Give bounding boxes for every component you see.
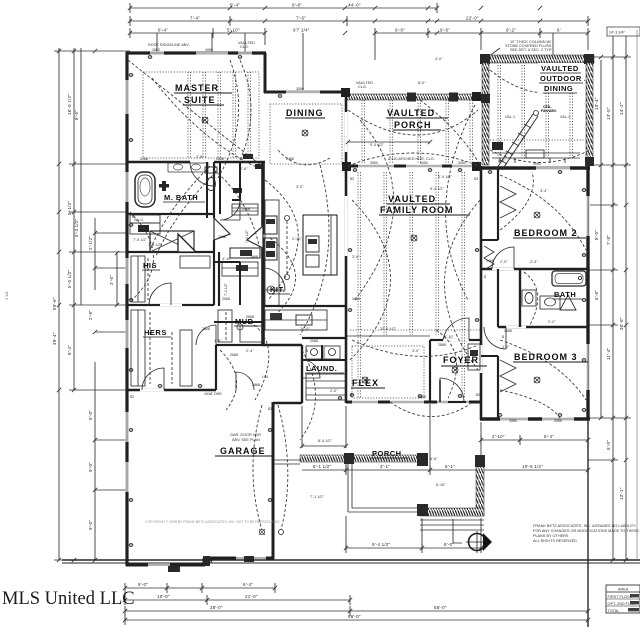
svg-text:FLEX: FLEX xyxy=(352,378,379,388)
svg-text:9'-4 1/2": 9'-4 1/2" xyxy=(370,143,385,147)
svg-text:9'-0": 9'-0" xyxy=(138,582,148,587)
svg-text:VAULTED: VAULTED xyxy=(387,108,435,118)
window: bedroom wing top xyxy=(536,166,570,169)
wall: mud/garage step xyxy=(263,345,302,403)
right dimension labels (rotated) xyxy=(594,97,624,500)
svg-text:3050: 3050 xyxy=(370,161,378,165)
svg-text:11'-4": 11'-4" xyxy=(606,347,611,360)
garage note xyxy=(230,433,261,442)
svg-text:M. BATH: M. BATH xyxy=(164,193,198,202)
wall stub laundry/flex xyxy=(322,345,346,402)
svg-text:3'-0": 3'-0" xyxy=(296,185,304,189)
hall wall stubs center xyxy=(207,162,263,322)
svg-text:12'-1": 12'-1" xyxy=(619,487,624,500)
svg-text:3'-1": 3'-1" xyxy=(380,464,390,469)
right sheet edge line xyxy=(636,30,638,560)
opening: bath door xyxy=(506,326,526,328)
svg-text:9'-0": 9'-0" xyxy=(88,410,93,420)
svg-text:2668: 2668 xyxy=(504,329,512,333)
wall: laundry top xyxy=(302,337,346,339)
mid bottom dimension porch row xyxy=(346,542,481,553)
outdoor dining top wall (hatched) xyxy=(480,54,594,64)
svg-text:9'-4 1/2": 9'-4 1/2" xyxy=(430,187,445,191)
outdoor dining counter xyxy=(492,150,580,163)
porch slab outline xyxy=(348,462,420,512)
porch top beam (hatched) xyxy=(346,93,481,102)
svg-text:BATH: BATH xyxy=(554,290,576,299)
kitchen island xyxy=(285,215,338,280)
svg-text:3050: 3050 xyxy=(420,161,428,165)
svg-text:FOYER: FOYER xyxy=(443,355,479,365)
electrical arc master2 xyxy=(218,60,239,178)
wall: bedroom wing top xyxy=(480,166,590,169)
svg-text:2468: 2468 xyxy=(286,157,294,161)
svg-text:4'-0": 4'-0" xyxy=(435,57,443,61)
wall: garage right xyxy=(272,402,275,559)
dining dashed ceiling rect xyxy=(270,104,342,164)
svg-text:2'-8": 2'-8" xyxy=(88,310,93,320)
svg-text:28'-0": 28'-0" xyxy=(210,605,223,610)
wall: master suite top xyxy=(126,51,266,54)
svg-text:4050: 4050 xyxy=(205,48,213,52)
room label FLEX xyxy=(351,378,385,388)
room label HIS xyxy=(142,261,160,270)
room label KIT xyxy=(269,285,290,294)
wall: his closet bottom xyxy=(127,304,214,306)
svg-text:2'-4": 2'-4" xyxy=(246,349,254,353)
bedroom3 closet zigzag xyxy=(481,356,516,392)
door size labels (dark blobs) xyxy=(140,48,562,423)
window: dining wall xyxy=(286,91,320,94)
svg-text:$3: $3 xyxy=(350,177,354,181)
disclaimer block xyxy=(533,524,639,543)
svg-text:16'-0 1/2": 16'-0 1/2" xyxy=(67,94,72,115)
svg-text:COPYRIGHT © 2008 BY FRANK BETZ: COPYRIGHT © 2008 BY FRANK BETZ ASSOCIATE… xyxy=(145,520,280,524)
room label PORCH xyxy=(371,449,408,458)
opening: garage entry xyxy=(140,389,164,392)
door swing: hall angled doors xyxy=(214,218,263,248)
wall: foyer top xyxy=(430,339,481,341)
svg-text:MASTER: MASTER xyxy=(175,83,219,93)
svg-text:44'-0": 44'-0" xyxy=(348,3,361,8)
electrical arc dining xyxy=(278,150,330,165)
svg-text:LAUND.: LAUND. xyxy=(306,364,337,373)
svg-text:DINING: DINING xyxy=(286,108,324,118)
svg-text:86'-0": 86'-0" xyxy=(348,614,361,619)
wall: family room left xyxy=(345,92,348,403)
bottom dimension row C xyxy=(125,605,588,616)
window: flex bottom xyxy=(352,401,469,404)
wall: garage bottom left part xyxy=(126,564,205,567)
dimension note dining clg xyxy=(356,81,373,89)
wall: family room top (porch side) xyxy=(346,165,481,168)
electrical arc bed3 xyxy=(500,390,560,418)
svg-text:OPT. 2ND FLR.: OPT. 2ND FLR. xyxy=(608,602,634,606)
svg-text:TOTAL: TOTAL xyxy=(608,609,620,613)
svg-text:7'-1 1/2": 7'-1 1/2" xyxy=(310,495,325,499)
svg-text:3068: 3068 xyxy=(140,157,148,161)
svg-text:5'-10": 5'-10" xyxy=(227,28,240,33)
room label M BATH xyxy=(163,193,205,202)
kitchen bottom wall xyxy=(263,305,346,307)
svg-text:GARAGE: GARAGE xyxy=(220,446,266,456)
svg-text:2'-0": 2'-0" xyxy=(330,389,338,393)
opening: kitchen pass xyxy=(261,226,265,248)
svg-text:30'-8": 30'-8" xyxy=(619,317,624,330)
svg-text:2'-2": 2'-2" xyxy=(548,320,556,324)
svg-text:21'-0": 21'-0" xyxy=(245,594,258,599)
svg-text:$3: $3 xyxy=(268,407,272,411)
extra arcs porch/outdoor xyxy=(420,100,590,165)
window: master top wall xyxy=(150,52,252,55)
svg-text:FOR ANY CHANGES OR MODIFICATIO: FOR ANY CHANGES OR MODIFICATIONS MADE TO… xyxy=(533,529,639,533)
svg-text:2068: 2068 xyxy=(310,339,318,343)
svg-text:OUTDOOR: OUTDOOR xyxy=(540,74,582,83)
m.bath linen xyxy=(130,215,160,242)
porch threshold lines xyxy=(274,460,300,464)
svg-text:3068: 3068 xyxy=(352,297,360,301)
room label VAULTED OUTDOOR DINING xyxy=(538,63,584,93)
left dimension column lines xyxy=(54,48,130,560)
vaulted porch ceiling dashed lines xyxy=(362,100,473,164)
wall: bedroom wing bottom xyxy=(480,417,590,420)
porch posts extra xyxy=(341,88,481,171)
kitchen bottom cabinets xyxy=(265,310,327,330)
svg-text:4'-6": 4'-6" xyxy=(430,457,438,461)
svg-text:8'-4 1/2": 8'-4 1/2" xyxy=(318,439,333,443)
wall: hers bottom / garage top xyxy=(127,389,216,392)
svg-text:22'-0": 22'-0" xyxy=(466,16,479,21)
svg-text:BEDROOM 3: BEDROOM 3 xyxy=(514,352,578,362)
svg-text:2468: 2468 xyxy=(250,255,258,259)
porch interior dim line xyxy=(346,140,432,144)
m.bath shower xyxy=(150,231,194,252)
wall: hall vertical lower xyxy=(218,252,220,306)
wall: vanity divider xyxy=(127,251,214,253)
svg-text:9'-2": 9'-2" xyxy=(506,28,516,33)
wall: bedroom wing left xyxy=(480,166,483,420)
pantry blobs xyxy=(233,154,264,193)
door swing: foyer closet xyxy=(443,318,469,340)
room label MUD xyxy=(234,317,258,326)
family/foyer divider thin line xyxy=(346,335,430,337)
wall: bath / bedroom3 divider xyxy=(498,326,588,328)
garage door opening right xyxy=(236,556,266,559)
switch symbols small xyxy=(130,165,504,411)
dimension note outdoor posts xyxy=(488,40,552,57)
svg-text:8'-4": 8'-4" xyxy=(158,28,168,33)
svg-text:2'-10": 2'-10" xyxy=(492,434,505,439)
svg-text:3'-0": 3'-0" xyxy=(352,255,360,259)
opening: hers door xyxy=(160,304,182,306)
opening: foyer to hall xyxy=(480,345,483,373)
right border vertical xyxy=(587,420,589,627)
wall: flex/foyer bottom exterior xyxy=(346,401,481,404)
svg-text:8'-0": 8'-0" xyxy=(418,81,426,85)
title block table xyxy=(606,585,640,613)
hall shelf ladder xyxy=(230,204,260,258)
svg-text:9'-6": 9'-6" xyxy=(440,28,450,33)
svg-text:3050: 3050 xyxy=(554,419,562,423)
svg-text:ALL RIGHTS RESERVED: ALL RIGHTS RESERVED xyxy=(533,539,577,543)
svg-text:8'-4": 8'-4" xyxy=(544,434,554,439)
garage pilasters xyxy=(168,556,254,572)
svg-text:8'-1 1/2": 8'-1 1/2" xyxy=(313,464,331,469)
electrical arc family big left xyxy=(300,165,329,335)
laundry appliances xyxy=(306,346,340,359)
svg-text:7'-8": 7'-8" xyxy=(606,235,611,245)
svg-text:10'-0": 10'-0" xyxy=(300,327,310,331)
door triangle hall xyxy=(178,234,196,252)
master ceiling beams dashed xyxy=(188,72,251,158)
svg-text:2668: 2668 xyxy=(230,353,238,357)
room label DINING xyxy=(285,108,325,118)
svg-text:CLG.: CLG. xyxy=(240,45,249,49)
svg-text:$3: $3 xyxy=(476,393,480,397)
svg-text:9'-4 1/2": 9'-4 1/2" xyxy=(372,542,390,547)
dimension row under flex/foyer xyxy=(302,464,588,475)
svg-text:39'-4": 39'-4" xyxy=(52,332,57,345)
wall: laundry/flex divider xyxy=(302,359,346,361)
svg-text:BEDROOM 2: BEDROOM 2 xyxy=(514,228,578,238)
window: right wall bedroom2 xyxy=(586,196,589,390)
svg-text:9'-0": 9'-0" xyxy=(88,520,93,530)
svg-text:6': 6' xyxy=(557,28,561,33)
garage ceiling dashed curves xyxy=(253,405,288,535)
kitchen wall counter xyxy=(264,200,279,306)
svg-text:3'-4": 3'-4" xyxy=(540,189,548,193)
svg-text:2'-10": 2'-10" xyxy=(292,237,302,241)
svg-text:$: $ xyxy=(502,335,504,339)
svg-text:2'-1/2": 2'-1/2" xyxy=(88,236,93,250)
porch steps xyxy=(420,520,484,530)
small dim texts scattered interior xyxy=(148,57,556,499)
svg-text:7'-6": 7'-6" xyxy=(296,16,306,21)
electrical arc bed2 xyxy=(500,172,533,230)
electrical arc outdoor xyxy=(490,70,585,93)
wall: master suite right step xyxy=(264,53,267,93)
wall: house left outer xyxy=(125,52,128,566)
svg-text:8'-0": 8'-0" xyxy=(594,230,599,240)
m.bath vanity xyxy=(168,163,208,172)
svg-text:1'-6": 1'-6" xyxy=(214,339,222,343)
svg-text:14'-2": 14'-2" xyxy=(619,102,624,115)
m.bath tub xyxy=(135,172,169,207)
top-right corner label box xyxy=(607,27,640,36)
svg-text:3050: 3050 xyxy=(296,87,304,91)
wall: kitchen/hall heavy vertical xyxy=(261,162,265,345)
dimension line top row 1 xyxy=(130,3,437,14)
svg-text:5'-3 1/2": 5'-3 1/2" xyxy=(74,219,79,237)
svg-text:20'-9 1/2": 20'-9 1/2" xyxy=(380,327,397,331)
svg-text:9'-0": 9'-0" xyxy=(395,28,405,33)
svg-text:$: $ xyxy=(484,275,486,279)
svg-text:$: $ xyxy=(132,215,134,219)
mud hall arcs xyxy=(250,322,316,440)
svg-text:3'-6": 3'-6" xyxy=(109,275,114,285)
dimension under bedroom3 xyxy=(481,434,588,445)
opening: family room left xyxy=(345,196,348,256)
porch bottom band xyxy=(417,504,484,516)
svg-text:2650: 2650 xyxy=(458,161,466,165)
svg-text:3068: 3068 xyxy=(418,395,426,399)
svg-text:3'-0": 3'-0" xyxy=(412,349,420,353)
door swing: his closet xyxy=(149,283,171,305)
svg-text:2'-0": 2'-0" xyxy=(500,260,508,264)
opening: bedroom2 door xyxy=(492,268,514,270)
svg-text:HERS: HERS xyxy=(144,328,167,337)
foyer closet strip xyxy=(468,344,480,370)
svg-text:DINING: DINING xyxy=(544,84,573,93)
mud bench xyxy=(218,310,262,342)
svg-text:CLG.: CLG. xyxy=(358,85,367,89)
garage door opening left xyxy=(148,563,170,566)
bath2 fixtures xyxy=(522,271,586,310)
svg-text:$: $ xyxy=(262,169,264,173)
electrical arc hall xyxy=(130,212,154,300)
svg-text:1'-1": 1'-1" xyxy=(502,345,510,349)
svg-text:13'-4": 13'-4" xyxy=(594,97,599,110)
svg-text:FAMILY ROOM: FAMILY ROOM xyxy=(380,205,454,215)
porch floor band (hatched) xyxy=(300,453,428,466)
electrical arc family sweep xyxy=(352,340,478,356)
svg-text:SUITE: SUITE xyxy=(184,95,216,105)
svg-text:2'-6": 2'-6" xyxy=(196,155,204,159)
outdoor dining ceiling dashed xyxy=(490,65,586,160)
opening: foyer top xyxy=(443,339,469,341)
svg-text:W.I.C.: W.I.C. xyxy=(134,218,144,222)
svg-text:2868: 2868 xyxy=(438,343,446,347)
svg-text:FAN ABV.: FAN ABV. xyxy=(541,109,557,113)
svg-text:MUD: MUD xyxy=(235,317,254,326)
flex ceiling dashed rect xyxy=(352,346,424,398)
svg-text:2468: 2468 xyxy=(486,259,494,263)
svg-text:2068: 2068 xyxy=(222,297,230,301)
svg-text:1 1/2: 1 1/2 xyxy=(5,284,9,300)
dimension note vaulted clg xyxy=(238,41,255,49)
bottom dimension row A xyxy=(125,582,275,593)
family room ceiling dashed lines xyxy=(350,172,480,398)
wall: garage bottom step xyxy=(203,558,206,565)
window: left wall openings xyxy=(126,80,129,492)
svg-text:8'-4": 8'-4" xyxy=(67,345,72,355)
room label VAULTED PORCH xyxy=(386,108,448,130)
electrical arc mud xyxy=(220,350,237,410)
room label MASTER SUITE xyxy=(174,83,232,105)
svg-text:8'-0": 8'-0" xyxy=(498,159,506,163)
water closet xyxy=(205,162,220,214)
closet zigzag near foyer xyxy=(484,246,494,270)
svg-text:6'-4": 6'-4" xyxy=(243,582,253,587)
svg-text:VAL.1: VAL.1 xyxy=(505,115,515,119)
wall: bedroom wing inner vertical xyxy=(497,168,499,419)
door swing: bedroom3 xyxy=(484,327,506,349)
svg-text:9'7 1/4": 9'7 1/4" xyxy=(293,28,310,33)
svg-text:24'-3 3/4": 24'-3 3/4" xyxy=(609,31,626,35)
bottom dimension row B xyxy=(125,594,350,605)
svg-text:AREA: AREA xyxy=(618,588,629,592)
svg-text:$: $ xyxy=(214,165,216,169)
porch dim droppers xyxy=(302,404,588,550)
ceiling light symbols scattered xyxy=(202,117,540,383)
svg-text:9'-8": 9'-8" xyxy=(292,3,302,8)
wall: bedroom2 / bath divider xyxy=(481,268,588,270)
window: family room top xyxy=(358,165,476,168)
bottom dimension row D xyxy=(125,614,588,625)
svg-text:5'-1": 5'-1" xyxy=(445,464,455,469)
svg-text:2468: 2468 xyxy=(218,235,226,239)
svg-text:3050: 3050 xyxy=(509,419,517,423)
svg-text:VAULTED: VAULTED xyxy=(388,194,436,204)
porch arched header curve xyxy=(348,153,479,166)
svg-text:6'-10": 6'-10" xyxy=(444,335,454,339)
outdoor dining grill ladder xyxy=(492,105,570,170)
svg-text:7'-4 1/2": 7'-4 1/2" xyxy=(245,229,249,243)
svg-text:7'-4": 7'-4" xyxy=(190,16,200,21)
svg-text:ROOF RIDGELINE ABV.: ROOF RIDGELINE ABV. xyxy=(148,43,190,47)
svg-text:VAL.1: VAL.1 xyxy=(560,115,570,119)
wall: m.bath bottom xyxy=(127,213,214,215)
svg-text:5'-0": 5'-0" xyxy=(606,440,611,450)
svg-text:SEE DET. A SEC. 2 TYP.: SEE DET. A SEC. 2 TYP. xyxy=(510,48,552,52)
svg-text:KIT.: KIT. xyxy=(270,285,285,294)
svg-text:5'-4 1/2": 5'-4 1/2" xyxy=(438,175,453,179)
window: bedroom wing bottom xyxy=(500,417,574,420)
wall: central hall vertical xyxy=(214,162,216,390)
wall: mud top xyxy=(216,344,265,346)
room label BEDROOM 3 xyxy=(513,352,588,362)
svg-text:PORCH: PORCH xyxy=(394,120,432,130)
svg-text:$3: $3 xyxy=(474,177,478,181)
porch right column+band xyxy=(475,455,485,516)
room label BATH xyxy=(553,290,582,299)
svg-text:VAULTED: VAULTED xyxy=(541,64,579,73)
room label HERS xyxy=(143,328,171,337)
front door: foyer xyxy=(440,378,466,402)
svg-text:8'-6": 8'-6" xyxy=(74,110,79,120)
svg-text:9'-0": 9'-0" xyxy=(88,462,93,472)
door swing: master to hall xyxy=(190,162,214,186)
svg-text:10'-0": 10'-0" xyxy=(157,594,170,599)
svg-text:5'-0 1/2": 5'-0 1/2" xyxy=(67,270,72,288)
extra arcs bedrooms xyxy=(500,175,586,400)
dimension line top row 2 xyxy=(130,16,588,27)
stair/linen detail near flex xyxy=(306,374,346,400)
svg-text:5'-1/2": 5'-1/2" xyxy=(67,201,72,215)
svg-text:FIRST FLOOR: FIRST FLOOR xyxy=(608,595,633,599)
wall: garage bottom right part xyxy=(204,557,274,560)
svg-text:PORCH: PORCH xyxy=(372,449,402,458)
window riser connectors xyxy=(157,33,553,90)
svg-text:2'-4": 2'-4" xyxy=(530,260,538,264)
master tray ceiling dashed rect xyxy=(143,72,259,158)
svg-text:7'-9 1/2": 7'-9 1/2" xyxy=(133,238,148,242)
extra arcs family/kitchen xyxy=(265,110,480,417)
outlet symbols xyxy=(129,55,587,562)
svg-text:PLANS BY OTHERS: PLANS BY OTHERS xyxy=(533,534,569,538)
his closet shelves xyxy=(131,256,210,302)
svg-text:16'x8' OHD: 16'x8' OHD xyxy=(204,392,222,396)
wall: bath left xyxy=(519,269,521,327)
outdoor dining right wall (hatched) xyxy=(585,63,594,166)
svg-text:GAR. DOOR HDR: GAR. DOOR HDR xyxy=(230,433,261,437)
electrical arc kitchen xyxy=(270,238,296,318)
extra door swings center xyxy=(142,200,320,390)
svg-text:HIS: HIS xyxy=(143,261,157,270)
room label VAULTED FAMILY ROOM xyxy=(379,194,470,215)
extra arcs left hall xyxy=(128,60,262,256)
electrical arc foyer xyxy=(436,330,457,398)
